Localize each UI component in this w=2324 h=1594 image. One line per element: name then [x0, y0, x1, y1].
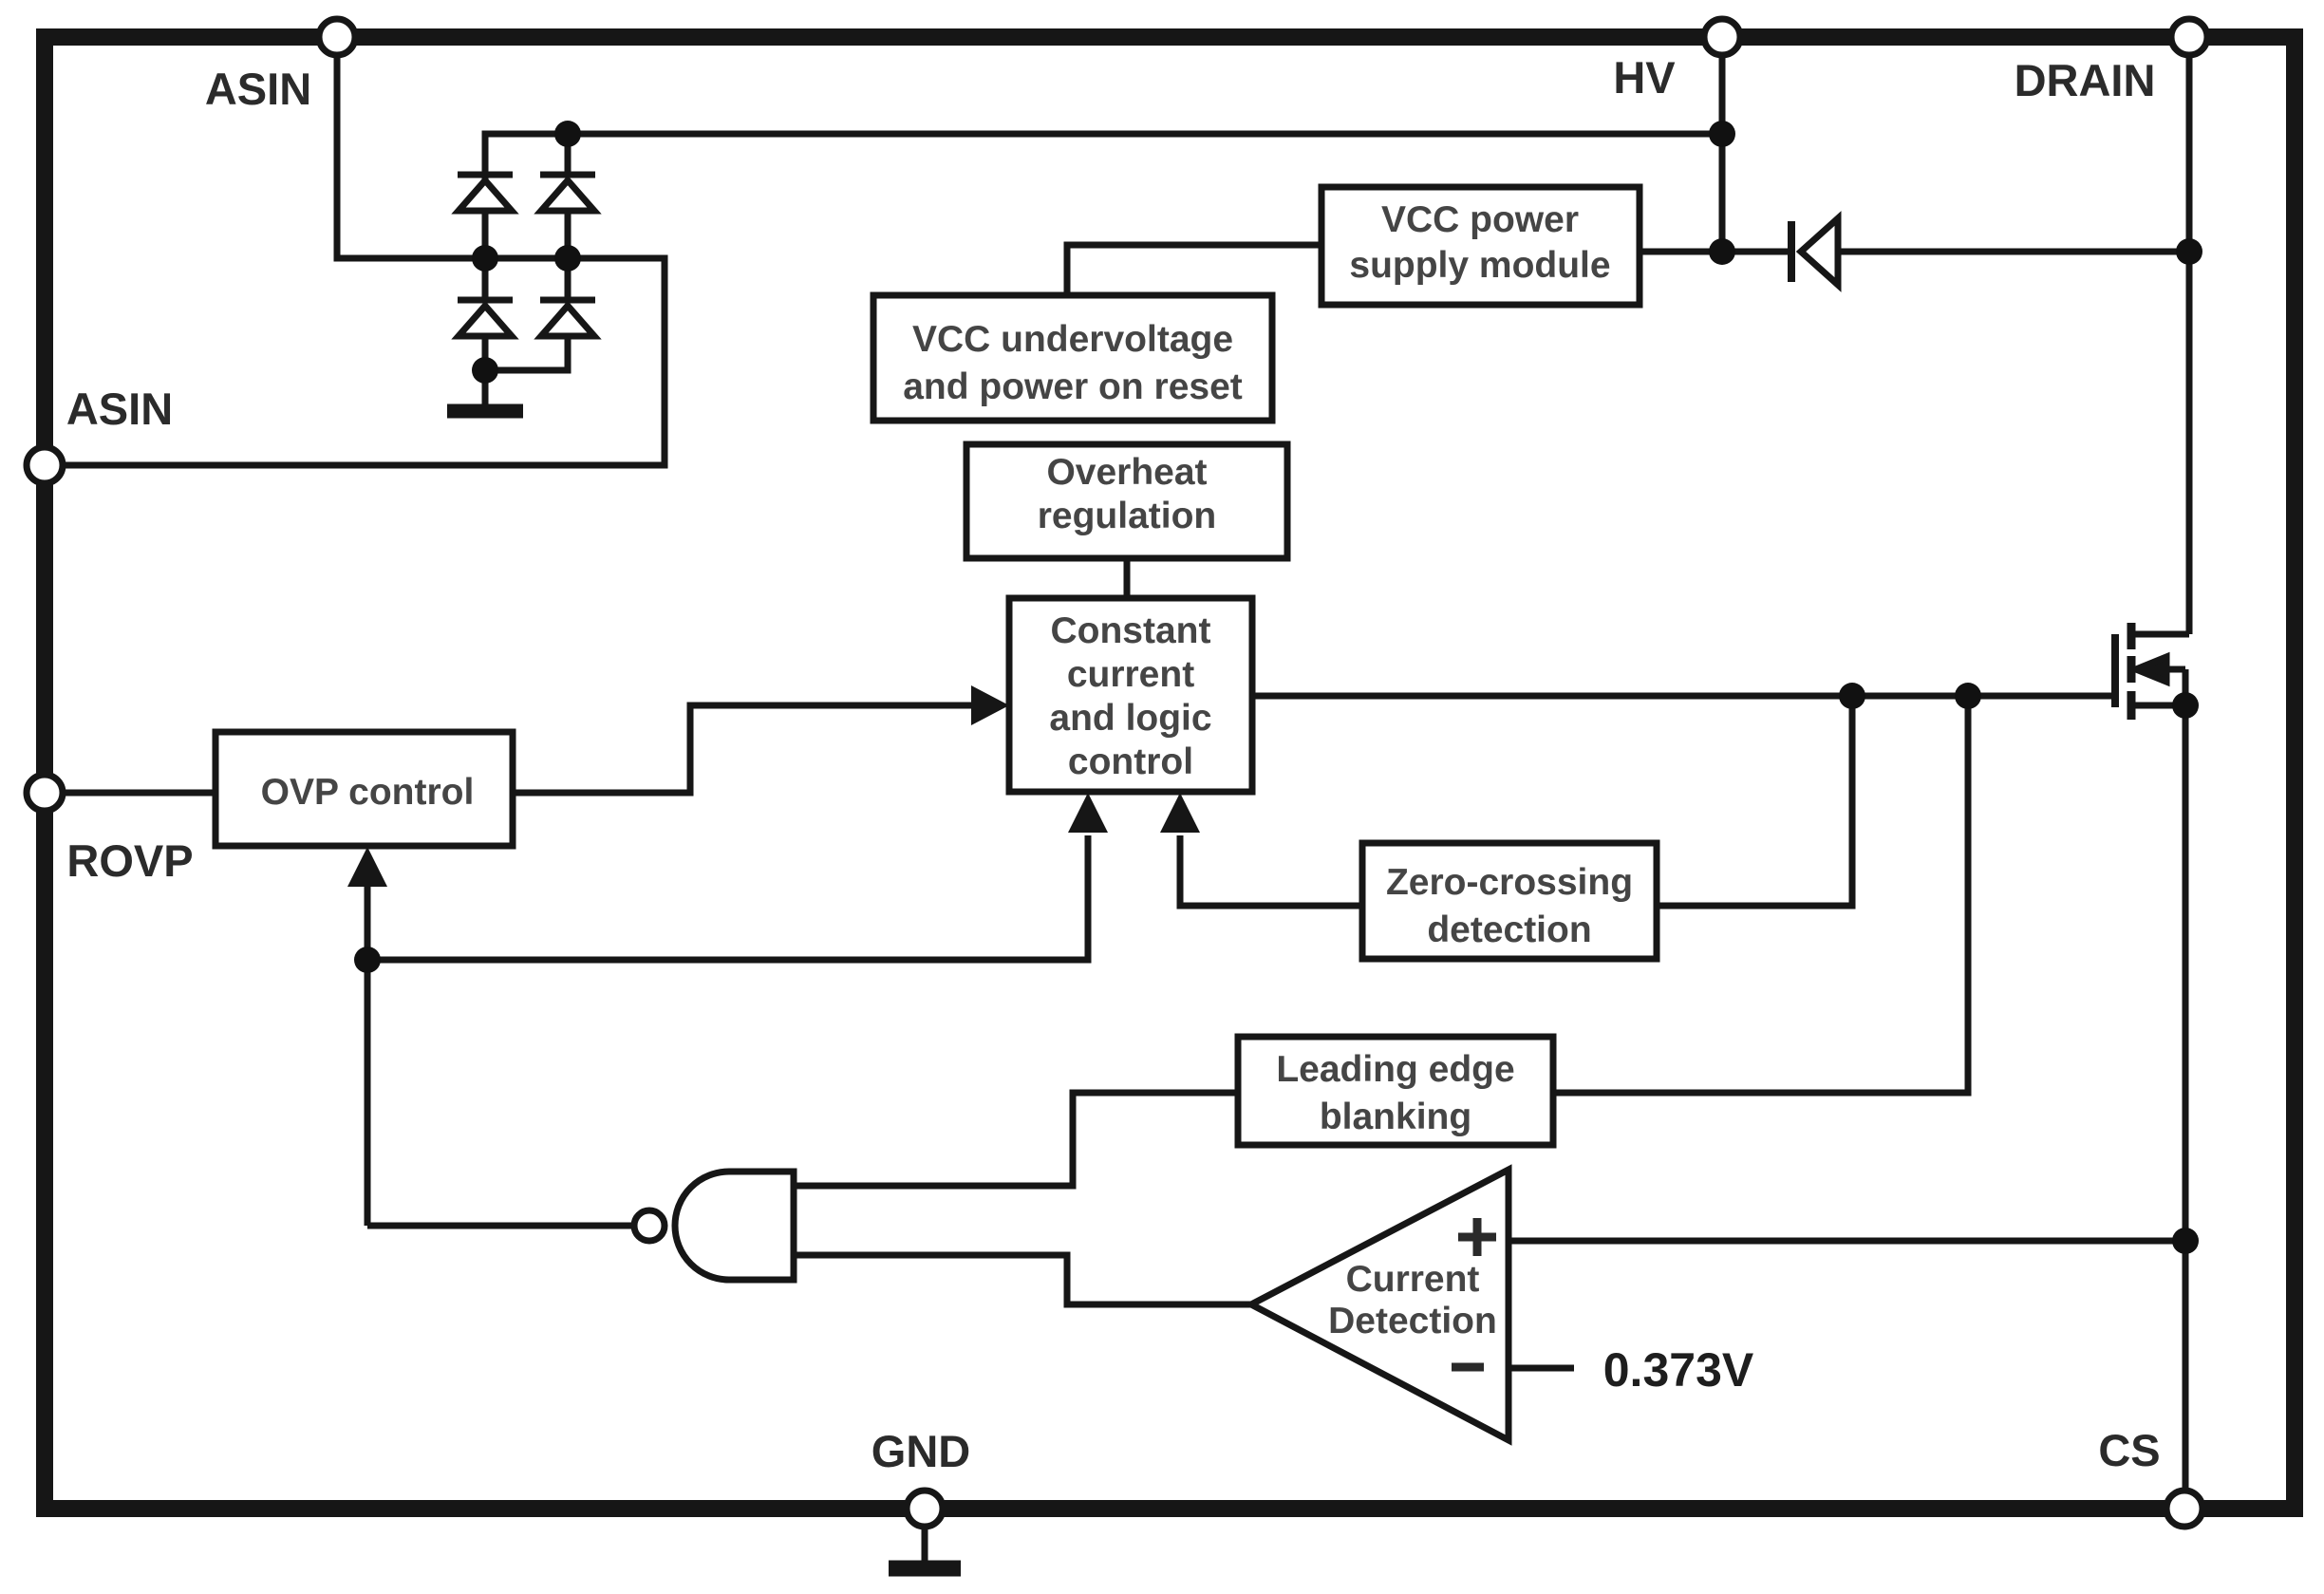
pin circle CS: [2166, 1491, 2202, 1527]
diode D3 top-right column: [540, 134, 595, 258]
ground symbol at GND pin: [889, 1561, 961, 1577]
wire diode tops to HV vertical: [485, 134, 1722, 175]
block Overheat regulation: [966, 444, 1287, 558]
wire diode D5 to DRAIN vertical: [1838, 249, 2189, 255]
arrow into Constant block bottom right: [1160, 793, 1200, 833]
comparator plus input marker: [1458, 1218, 1496, 1256]
wire node A to Constant block bottom arrow: [367, 835, 1088, 960]
wire DRAIN pin down to MOSFET drain: [2186, 55, 2193, 634]
svg-text:Zero-crossing: Zero-crossing: [1386, 862, 1633, 903]
svg-text:Detection: Detection: [1328, 1301, 1497, 1341]
wire diode bottom node to ground: [482, 370, 489, 406]
block OVP control: [216, 732, 513, 846]
arrow into Constant block left: [971, 685, 1009, 725]
comparator U2 Current Detection: [1251, 1170, 1509, 1440]
diode D1 top-left column: [458, 175, 513, 258]
svg-text:0.373V: 0.373V: [1603, 1343, 1754, 1397]
svg-text:HV: HV: [1613, 52, 1676, 103]
node dot gate line leading edge: [1955, 683, 1981, 709]
wire VCC power supply module to VCC undervoltage block: [1067, 245, 1321, 295]
svg-text:ASIN: ASIN: [205, 64, 311, 114]
svg-text:Current: Current: [1346, 1259, 1480, 1300]
wire comparator minus input to 0.373V reference: [1509, 1365, 1574, 1372]
node dot top wire at right diode column: [554, 121, 581, 147]
wire node A vertical through OVP arrow down to NAND output: [365, 887, 371, 1226]
diode D5 between HV node and DRAIN: [1791, 218, 1838, 285]
arrow into Constant block bottom left: [1068, 793, 1108, 833]
wire ASIN top pin down to diode mid node: [337, 55, 485, 258]
svg-text:VCC undervoltage: VCC undervoltage: [912, 319, 1233, 360]
block VCC undervoltage and power on reset: [873, 295, 1272, 421]
wire Leading edge blanking to gate line node: [1553, 696, 1968, 1093]
wire NAND output bubble to node A: [367, 1223, 634, 1229]
pin circle GND: [907, 1491, 943, 1527]
diode D2 bottom-left column: [458, 258, 513, 370]
wire diode mid node right and down to ASIN left pin: [63, 258, 665, 465]
svg-text:Leading edge: Leading edge: [1276, 1049, 1514, 1090]
svg-text:control: control: [1068, 741, 1193, 782]
svg-text:and power on reset: and power on reset: [903, 366, 1243, 407]
transistor Q1 power MOSFET: [2115, 623, 2189, 720]
wire comparator output to NAND bottom input: [794, 1255, 1251, 1304]
svg-text:ROVP: ROVP: [66, 835, 193, 886]
block Constant current and logic control: [1009, 598, 1252, 792]
wire MOSFET source down to CS pin: [2183, 705, 2189, 1492]
node dot right diode middle: [554, 245, 581, 272]
block Zero-crossing detection: [1362, 843, 1657, 959]
wire HV pin down to HV node: [1719, 55, 1726, 252]
wire OVP control output to Constant current block: [513, 705, 974, 793]
node dot CS sense line: [2172, 1228, 2199, 1254]
svg-text:regulation: regulation: [1038, 496, 1217, 536]
wire zero-crossing input from Constant block arrow: [1180, 835, 1362, 906]
wire ROVP pin to OVP control: [63, 790, 216, 797]
svg-text:GND: GND: [871, 1426, 970, 1476]
svg-text:DRAIN: DRAIN: [2015, 55, 2156, 105]
wire Constant current output to MOSFET gate: [1252, 693, 2115, 700]
pin circle ASIN left: [27, 447, 63, 483]
svg-text:supply module: supply module: [1349, 245, 1610, 286]
wire zero-crossing output to gate line node: [1657, 696, 1852, 906]
svg-text:OVP control: OVP control: [261, 772, 475, 813]
pin circle ASIN top: [319, 19, 355, 55]
node dot diode bottom: [472, 357, 498, 384]
svg-text:and logic: and logic: [1049, 698, 1211, 739]
svg-text:blanking: blanking: [1320, 1097, 1471, 1137]
svg-text:Overheat: Overheat: [1046, 452, 1207, 493]
node dot HV node: [1709, 238, 1735, 265]
pin circle ROVP: [27, 775, 63, 811]
svg-text:CS: CS: [2098, 1425, 2160, 1475]
arrow into OVP control bottom: [347, 847, 387, 887]
node dot left diode middle: [472, 245, 498, 272]
NAND gate U1 (mirrored, output bubble left): [634, 1172, 794, 1280]
wire GND pin stub: [922, 1525, 928, 1563]
svg-text:Constant: Constant: [1051, 610, 1211, 651]
wire HV node to diode D5 anode side: [1722, 249, 1789, 255]
node dot node A: [354, 947, 381, 973]
block Leading edge blanking: [1238, 1037, 1553, 1145]
diode D4 bottom-right column: [485, 258, 595, 370]
svg-text:VCC power: VCC power: [1381, 199, 1579, 240]
svg-text:detection: detection: [1427, 910, 1591, 950]
node dot top wire at HV vertical: [1709, 121, 1735, 147]
pin circle HV: [1704, 19, 1740, 55]
wire comparator plus input to CS line: [1509, 1238, 2185, 1245]
wire HV node to VCC power supply module: [1640, 249, 1722, 255]
svg-text:ASIN: ASIN: [66, 384, 173, 434]
node dot MOSFET source: [2172, 692, 2199, 719]
wire between diode middle nodes: [485, 255, 568, 262]
pin circle DRAIN: [2171, 19, 2207, 55]
node dot gate line zero-crossing: [1839, 683, 1865, 709]
comparator minus input marker: [1452, 1363, 1484, 1372]
svg-text:current: current: [1067, 654, 1194, 695]
block VCC power supply module: [1321, 187, 1640, 305]
node dot drain wire: [2176, 238, 2202, 265]
wire Overheat regulation to Constant current block: [1124, 558, 1131, 600]
wire NAND top input to Leading edge blanking: [794, 1093, 1238, 1186]
ground symbol under diode stack: [447, 404, 523, 419]
